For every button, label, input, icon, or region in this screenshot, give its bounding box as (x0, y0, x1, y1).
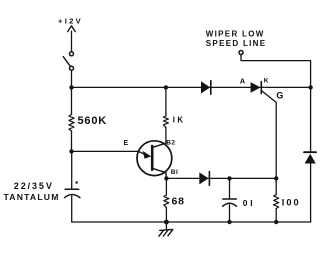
transistor Q1 B2 lead (153, 143, 166, 147)
wire: 68 to bottom rail (165, 208, 167, 222)
node: B1 junction (164, 176, 168, 180)
switch S1 top contact (70, 52, 74, 56)
diode D1 (201, 81, 211, 95)
wire: B1 line diode to gate junction (230, 177, 277, 179)
transistor Q1 B1 lead (153, 168, 167, 178)
wire: 560K to emitter junction (71, 131, 73, 152)
svg-text:68: 68 (172, 196, 185, 208)
diode D2 (199, 172, 209, 186)
wire: left rail to 560K (71, 87, 73, 114)
svg-text:560K: 560K (78, 115, 108, 127)
wire: emitter wire to UJT (72, 150, 139, 152)
svg-text:A: A (240, 77, 246, 86)
node: right rail top junction (308, 85, 312, 89)
wire: 100 to bottom rail (275, 209, 277, 223)
node: emitter junction (69, 149, 73, 153)
wire: right rail down to diode D3 (310, 87, 312, 152)
capacitor C1 22/35V tantalum (65, 181, 80, 197)
wire: .01 cap to bottom rail (229, 205, 231, 222)
wire: 1K to UJT B2 (165, 127, 167, 143)
svg-text:22/35V: 22/35V (14, 181, 54, 191)
diode D3 (304, 152, 316, 163)
wire: junction to 100 resistor (275, 178, 277, 194)
transistor Q1 UJT body (137, 141, 172, 176)
node: ground junction (164, 220, 169, 225)
wire: tantalum cap to bottom rail (71, 196, 73, 222)
wire: junction down to tantalum cap (71, 151, 73, 188)
wire: B1 to 68 resistor (165, 178, 167, 195)
resistor R4 100 (274, 195, 279, 209)
svg-text:SPEED LINE: SPEED LINE (206, 39, 267, 48)
wire: junction to .01 cap (229, 178, 231, 198)
power terminal +12V arrow (68, 26, 76, 32)
wire: +12V arrow to switch top contact (71, 31, 73, 51)
wire: switch to top rail (71, 70, 73, 87)
wire: top rail (72, 86, 311, 88)
wire: diode D3 to bottom rail (310, 163, 312, 222)
node: +12V rail junction (69, 85, 73, 89)
svg-text:IK: IK (173, 116, 186, 125)
svg-text:0I: 0I (243, 198, 256, 208)
svg-text:WIPER LOW: WIPER LOW (206, 29, 265, 38)
wire: B1 line to diode (166, 177, 229, 179)
node: .01 cap junction (227, 176, 231, 180)
svg-text:B2: B2 (166, 140, 175, 147)
resistor R3 68 (164, 195, 169, 208)
svg-text:E: E (124, 140, 129, 147)
wire: bottom rail (72, 221, 311, 223)
node: 100 bottom rail junction (274, 220, 278, 224)
switch S1 bottom contact (70, 66, 74, 70)
node: gate/100 junction (274, 176, 278, 180)
switch S1 blade (63, 57, 70, 67)
svg-text:+I2V: +I2V (58, 16, 83, 25)
SCR gate lead (262, 91, 277, 179)
wire: terminal to right rail (241, 54, 311, 87)
node: .01 bottom rail junction (227, 220, 231, 224)
ground (159, 222, 173, 236)
svg-text:G: G (276, 91, 283, 101)
SCR Q2 (251, 82, 262, 94)
transistor Q1 base bar (151, 146, 154, 170)
terminal: wiper low speed line (239, 51, 243, 55)
svg-text:I00: I00 (282, 198, 301, 208)
resistor R2 1K (163, 116, 168, 128)
svg-text:TANTALUM: TANTALUM (4, 192, 60, 202)
resistor 560K (69, 114, 74, 130)
node: 1K top junction (164, 85, 168, 89)
svg-text:K: K (264, 77, 269, 84)
wire: top rail to 1K (165, 87, 167, 116)
capacitor C2 .01 (223, 199, 237, 206)
svg-text:BI: BI (171, 169, 179, 176)
transistor Q1 emitter arrow (138, 151, 151, 159)
